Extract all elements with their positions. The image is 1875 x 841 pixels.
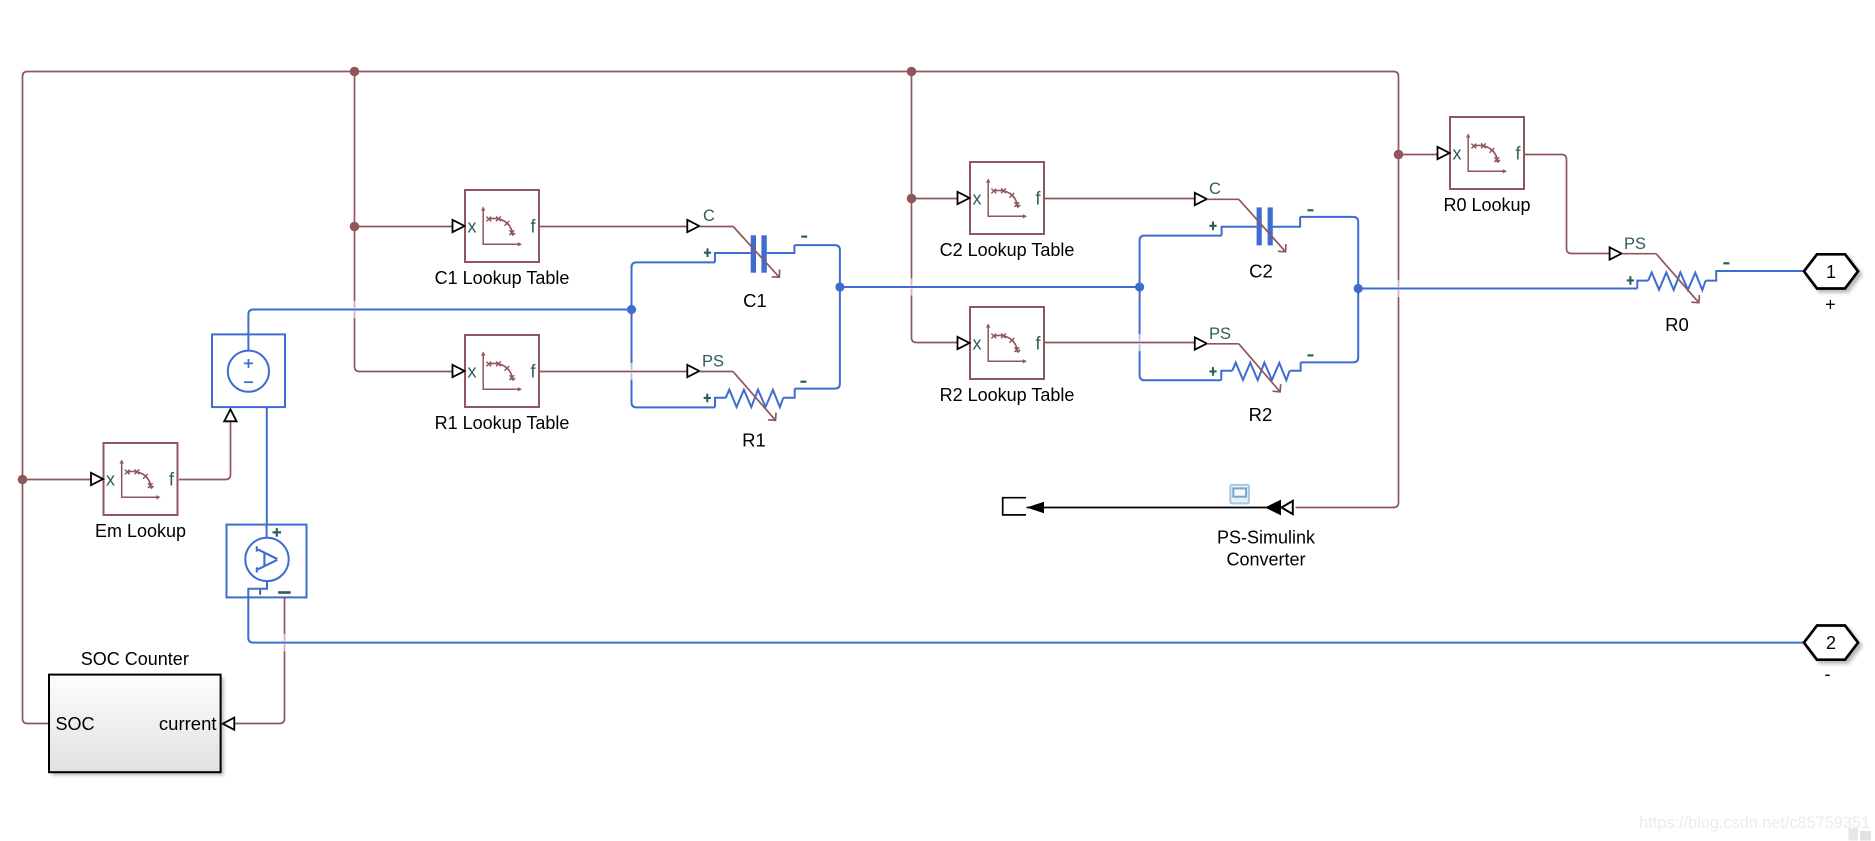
C2 Lookup Table block xyxy=(958,162,1045,234)
junction: C2 left rail to bus xyxy=(1135,282,1144,291)
svg-text:R1: R1 xyxy=(742,430,766,451)
wire: C1 Lookup f to C1 control port xyxy=(539,226,687,228)
converter input arrows xyxy=(1265,500,1281,516)
junction: left rail to voltage source xyxy=(627,305,636,314)
svg-text:x: x xyxy=(1453,143,1462,163)
svg-text:PS: PS xyxy=(1209,325,1231,343)
svg-text:R0: R0 xyxy=(1665,314,1689,335)
svg-text:+: + xyxy=(1825,295,1836,315)
PS-Simulink Converter line (black) xyxy=(1027,507,1284,509)
svg-text:PS: PS xyxy=(702,353,724,371)
svg-text:R0 Lookup: R0 Lookup xyxy=(1443,195,1530,215)
svg-text:C2 Lookup Table: C2 Lookup Table xyxy=(940,240,1075,260)
junction: right vertical to R0 Lookup xyxy=(1394,150,1404,160)
svg-text:C1: C1 xyxy=(743,290,767,311)
port arrow: SOC Counter current input xyxy=(223,718,235,730)
junction: C1 Lookup branch xyxy=(350,222,360,232)
arrowhead at left xyxy=(1027,502,1045,513)
svg-text:2: 2 xyxy=(1826,633,1836,653)
SOC Counter subsystem xyxy=(49,675,221,773)
svg-text:current: current xyxy=(159,713,217,734)
junction: C2 Lookup branch xyxy=(907,194,917,204)
wire: C2/R2 left rail xyxy=(1140,236,1222,381)
wire: vertical branch x=911.6 down to R2 Lookup, with C2 branch xyxy=(912,72,958,343)
wire: current sensor PS output down to SOC Counter current input xyxy=(235,597,285,723)
capacitor C2 variable arrow xyxy=(1239,199,1286,251)
svg-text:C: C xyxy=(703,207,715,225)
Em Lookup block xyxy=(91,443,178,515)
wire: C2 Lookup f to C2 control port xyxy=(1044,199,1207,200)
capacitor C2 plates xyxy=(1257,207,1262,245)
junction: SOC line to Em Lookup xyxy=(18,475,28,485)
wire: C1/R1 right rail xyxy=(794,245,840,389)
converter icon xyxy=(1230,485,1249,504)
resistor R2 branch wires xyxy=(1221,371,1232,381)
capacitor C2 branch wires xyxy=(1222,227,1257,236)
wire: R1 Lookup f to R1 control port xyxy=(539,371,687,373)
port arrow: voltage source vT input (up triangle) xyxy=(224,409,236,421)
junction: right rail to middle bus xyxy=(835,282,844,291)
junction: top line at x=354 xyxy=(350,67,360,77)
wire: SOC feedback loop (left vertical, top horizontal, right vertical to converter) xyxy=(23,72,1399,724)
wire: bus from second RC pair to R0 xyxy=(1358,288,1637,290)
resistor R1 variable arrow xyxy=(733,372,776,421)
R1 Lookup Table block xyxy=(453,335,540,407)
wire: voltage source - to current sensor + xyxy=(266,407,268,524)
capacitor C1 branch wires xyxy=(715,253,751,262)
svg-text:SOC Counter: SOC Counter xyxy=(81,649,189,669)
svg-text:Converter: Converter xyxy=(1226,550,1305,570)
wire: Em Lookup f to voltage source signal input xyxy=(179,422,231,480)
wire crossing gap at C1/R1 left rail under R1 lookup wire xyxy=(629,363,634,380)
wire: current sensor - down and right to output port 2 xyxy=(248,597,1804,642)
svg-text:x: x xyxy=(106,469,115,489)
svg-text:C2: C2 xyxy=(1249,261,1273,282)
svg-text:C: C xyxy=(1209,180,1221,198)
junction: top line at x=911.6 xyxy=(907,67,917,77)
svg-text:PS: PS xyxy=(1624,235,1646,253)
wire: branch to Em Lookup input xyxy=(23,479,91,481)
wire: C1/R1 left rail xyxy=(632,262,716,407)
svg-text:1: 1 xyxy=(1826,262,1836,282)
resistor R0 wires xyxy=(1637,281,1648,289)
dangling end bracket xyxy=(1003,498,1026,515)
R0 Lookup block xyxy=(1438,117,1525,189)
svg-text:R2 Lookup Table: R2 Lookup Table xyxy=(940,385,1075,405)
svg-text:Em Lookup: Em Lookup xyxy=(95,521,186,541)
wire: R0 Lookup f to R0 control port xyxy=(1525,155,1610,254)
svg-text:-: - xyxy=(1825,664,1831,684)
capacitor C1 variable arrow xyxy=(733,227,779,278)
voltage source (controlled voltage source) xyxy=(212,334,285,407)
wire: middle bus between RC pairs xyxy=(840,286,1140,288)
svg-text:PS-Simulink: PS-Simulink xyxy=(1217,528,1316,548)
output port 1 xyxy=(1804,254,1858,288)
wire: voltage source + to RC network left rail xyxy=(248,310,631,335)
svg-text:C1 Lookup Table: C1 Lookup Table xyxy=(435,268,570,288)
output port 2 xyxy=(1804,626,1858,660)
junction: C2 right rail to output bus xyxy=(1354,284,1363,293)
svg-text:x: x xyxy=(973,188,982,208)
svg-text:SOC: SOC xyxy=(56,714,95,734)
wire crossing gaps (brown verticals under blue horizontals) xyxy=(352,301,357,318)
svg-text:R2: R2 xyxy=(1249,404,1273,425)
svg-text:R1 Lookup Table: R1 Lookup Table xyxy=(435,413,570,433)
wire: R2 Lookup f to R2 control port xyxy=(1044,343,1207,344)
wire: C2/R2 right rail xyxy=(1300,217,1358,363)
resistor R0 variable arrow xyxy=(1656,254,1699,303)
svg-text:x: x xyxy=(468,361,477,381)
svg-text:https://blog.csdn.net/c8575935: https://blog.csdn.net/c85759351 xyxy=(1639,814,1870,832)
wire crossing gap at C2/R2 left rail under R2 lookup wire xyxy=(1137,334,1142,351)
resistor R2 variable arrow xyxy=(1239,344,1280,392)
current sensor xyxy=(227,525,307,598)
resistor R1 branch wires xyxy=(715,398,726,408)
C1 Lookup Table block xyxy=(453,190,540,262)
svg-text:x: x xyxy=(973,333,982,353)
capacitor C1 plates xyxy=(751,235,756,272)
wire: vertical branch x=354 down to R1 Lookup, with C1 branch xyxy=(355,72,453,372)
svg-text:x: x xyxy=(468,216,477,236)
R2 Lookup Table block xyxy=(958,307,1045,379)
